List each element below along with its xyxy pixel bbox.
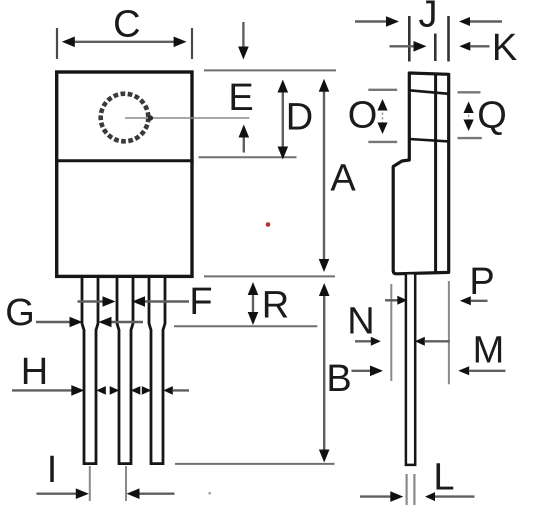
side body outline bbox=[393, 73, 449, 274]
dimension I arrows bbox=[37, 493, 77, 495]
svg-text:Q: Q bbox=[477, 95, 507, 137]
svg-text:A: A bbox=[330, 158, 356, 200]
svg-text:P: P bbox=[469, 261, 494, 303]
top edge extension line bbox=[204, 69, 336, 71]
svg-text:K: K bbox=[492, 27, 517, 69]
svg-text:O: O bbox=[348, 95, 378, 137]
dimension H arrows bbox=[12, 389, 73, 391]
dimension A double arrow bbox=[323, 90, 325, 260]
dimension O double arrow bbox=[382, 108, 384, 125]
O tick bottom bbox=[368, 141, 397, 143]
Q tick top bbox=[458, 91, 481, 93]
svg-text:H: H bbox=[21, 351, 48, 393]
svg-text:D: D bbox=[286, 96, 313, 138]
tab upper line bbox=[409, 90, 448, 94]
left vertical extension (lead area) bbox=[390, 284, 392, 381]
dimension C ticks bbox=[56, 28, 58, 59]
lead 1 center extension bbox=[89, 466, 91, 501]
M arrow at lead bbox=[415, 337, 425, 346]
dimension E down arrow bbox=[242, 22, 244, 48]
B row left arrow bbox=[352, 370, 372, 372]
lead 2 center extension bbox=[125, 466, 127, 501]
Q tick bottom bbox=[458, 137, 482, 139]
dimension P arrow bbox=[460, 296, 471, 305]
dimension L arrows bbox=[360, 495, 391, 497]
dimension K arrows bbox=[390, 45, 415, 47]
J/K tick right bbox=[447, 16, 450, 62]
faint dot bbox=[208, 492, 211, 495]
svg-text:G: G bbox=[5, 292, 35, 334]
svg-text:F: F bbox=[189, 281, 212, 323]
mounting hole (dashed circle) bbox=[101, 94, 149, 142]
svg-text:E: E bbox=[228, 77, 253, 119]
dimension D double arrow bbox=[282, 90, 284, 148]
dimension G arrow bbox=[36, 321, 71, 323]
M row right arrow bbox=[458, 366, 469, 375]
dimension B double arrow bbox=[323, 294, 325, 450]
lead step extension line bbox=[174, 325, 317, 327]
tab lower line bbox=[409, 139, 448, 141]
dimension J arrows bbox=[355, 20, 387, 22]
dimension E up arrow bbox=[239, 125, 250, 138]
svg-text:L: L bbox=[433, 457, 454, 499]
hole center line bbox=[125, 117, 250, 119]
dimension C double arrow bbox=[75, 41, 175, 43]
L tick right bbox=[413, 474, 415, 505]
lead 3 (front) bbox=[149, 278, 165, 464]
lead 2 (front) bbox=[117, 278, 133, 464]
svg-text:I: I bbox=[47, 449, 58, 491]
svg-text:J: J bbox=[419, 0, 438, 36]
lead 1 (front) bbox=[82, 278, 98, 464]
svg-text:C: C bbox=[113, 3, 140, 45]
tab line extension bbox=[199, 156, 297, 158]
svg-text:B: B bbox=[326, 358, 351, 400]
side lead bbox=[406, 275, 415, 465]
tab separator line bbox=[55, 159, 194, 162]
svg-text:R: R bbox=[262, 285, 289, 327]
svg-text:M: M bbox=[473, 330, 505, 372]
dimension Q double arrow bbox=[468, 110, 470, 122]
package body outline bbox=[57, 72, 192, 276]
svg-text:N: N bbox=[347, 301, 374, 343]
dimension F line and arrows bbox=[78, 300, 105, 302]
lead tip extension line bbox=[175, 463, 335, 465]
dimension R double arrow bbox=[252, 293, 254, 314]
N upper arrow bbox=[385, 299, 399, 301]
right vertical extension (lead area) bbox=[448, 281, 450, 384]
red dot bbox=[266, 222, 271, 227]
J/K tick left bbox=[408, 16, 411, 62]
hole center dot bbox=[148, 115, 153, 120]
O tick top bbox=[368, 89, 397, 91]
N lower arrow bbox=[355, 340, 372, 342]
L tick left bbox=[406, 474, 408, 505]
body bottom extension line bbox=[204, 275, 335, 277]
J/K tick middle bbox=[434, 34, 437, 62]
side inner line bbox=[434, 73, 437, 273]
